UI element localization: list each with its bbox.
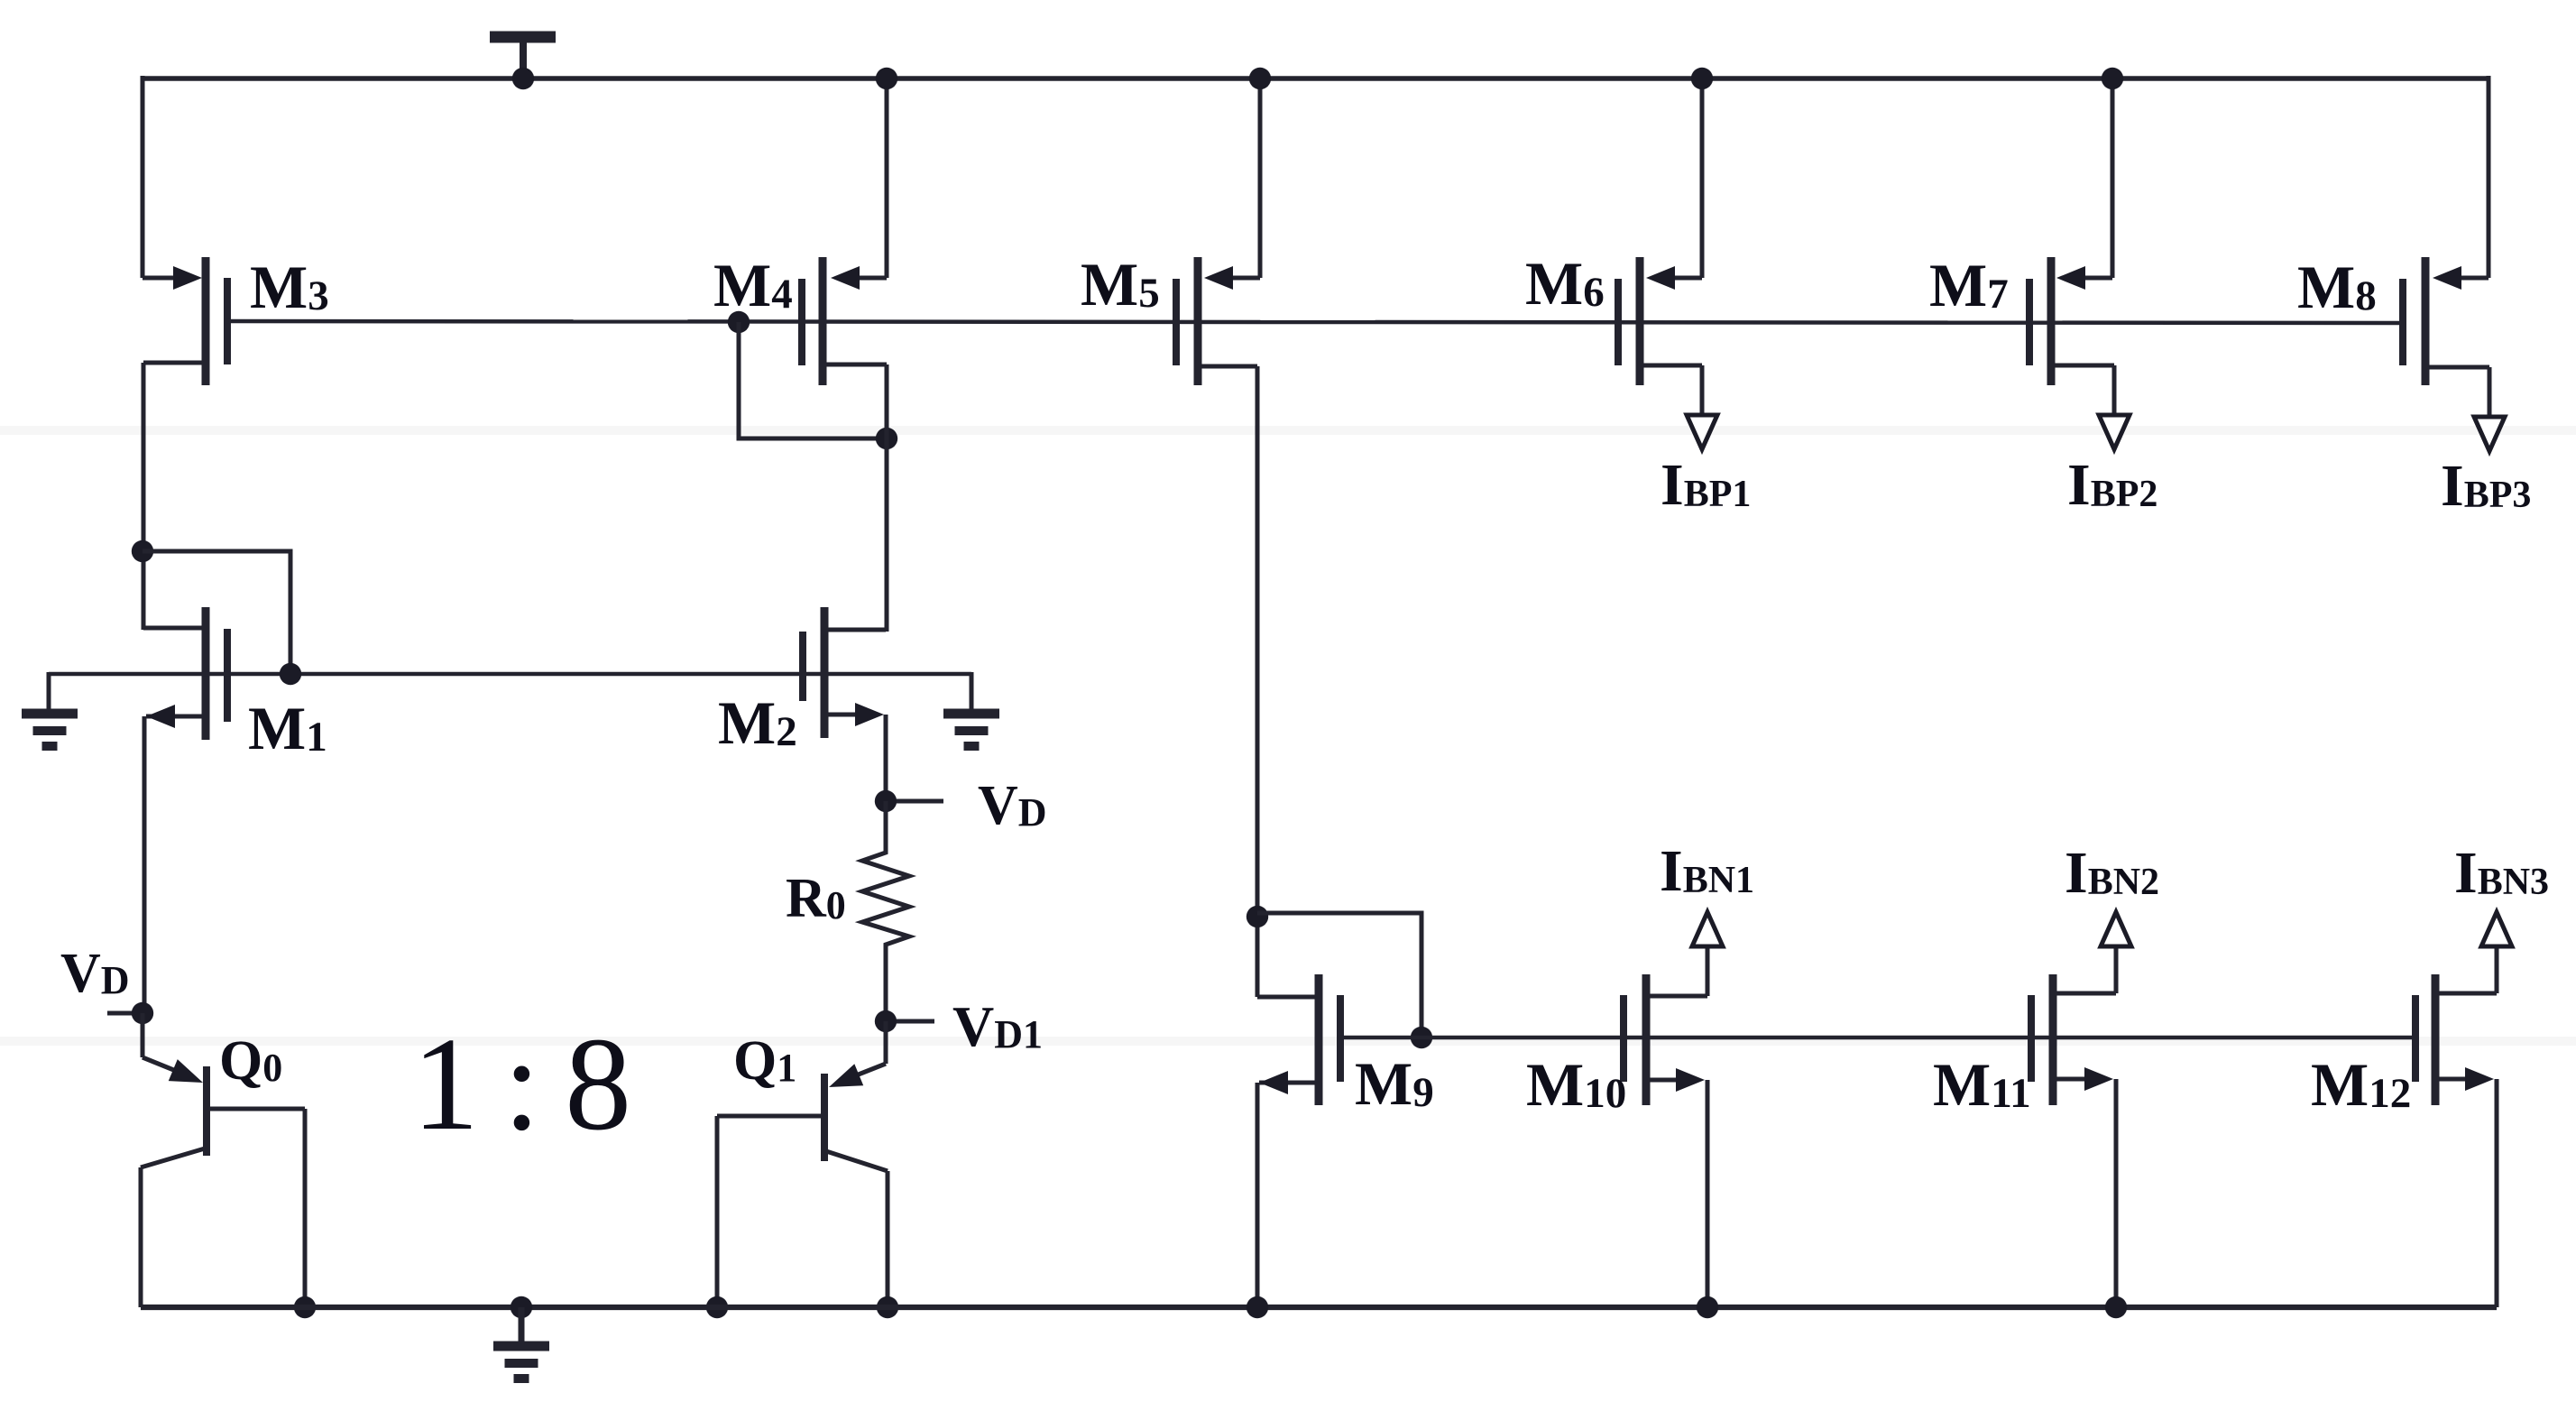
node dot M1 gate-drain bbox=[280, 663, 301, 685]
node dot M4 source on rail bbox=[876, 68, 897, 89]
label IBP2 bbox=[2067, 452, 2157, 518]
node dot M7 source on rail bbox=[2102, 68, 2123, 89]
label M10 bbox=[1526, 1050, 1626, 1119]
wire M1 drain stub bbox=[143, 626, 206, 631]
wire M11 source down bbox=[2114, 1079, 2119, 1307]
wire M12 source down bbox=[2495, 1079, 2499, 1307]
node dot M3 drain / M1 gate feedback bbox=[132, 540, 153, 562]
wire M5 source from rail bbox=[1258, 76, 1263, 278]
wire Q0 emitter bbox=[143, 1013, 180, 1073]
label M9 bbox=[1355, 1049, 1434, 1118]
label M5 bbox=[1081, 250, 1160, 318]
wire M4 drain stub bbox=[826, 364, 887, 632]
label M4 bbox=[713, 251, 793, 319]
label M12 bbox=[2311, 1050, 2411, 1119]
wire Q1 emitter bbox=[851, 1021, 886, 1077]
resistor R0 bbox=[862, 801, 909, 1021]
arrow IBP3 output bbox=[2474, 417, 2505, 451]
label M11 bbox=[1933, 1050, 2031, 1119]
node dot M4 gate tie bbox=[728, 311, 750, 333]
arrow IBP1 output bbox=[1687, 415, 1717, 449]
wire gate bus M3-M4-M5-M6-M7-M8 bbox=[227, 321, 2403, 323]
transistor M6 bbox=[1618, 257, 1702, 385]
label M3 bbox=[250, 253, 329, 321]
wire VD tick bbox=[897, 799, 943, 804]
transistor Q1 bbox=[717, 1074, 888, 1171]
transistor M9 bbox=[1259, 974, 1340, 1105]
node dot M9 drain from M5 bbox=[1247, 906, 1268, 927]
transistor M4 bbox=[802, 257, 887, 385]
node dot VD bbox=[875, 790, 897, 812]
wire M5 drain stub and drop to M9 bbox=[1201, 366, 1257, 997]
wire bottom ground stem bbox=[519, 1307, 525, 1344]
arrow Q0 emitter PNP bbox=[169, 1059, 203, 1083]
wire M9 drain stub bbox=[1257, 995, 1319, 1000]
transistor M3 bbox=[143, 257, 227, 385]
wire left ground stem bbox=[47, 672, 51, 714]
wire feedback M3 drain to M1 M2 gate line bbox=[143, 551, 290, 674]
arrow IBN2 output bbox=[2101, 912, 2131, 946]
label VD1 bbox=[952, 994, 1043, 1058]
node dot M4 drain tie bbox=[876, 428, 897, 449]
wire M7 source from rail bbox=[2111, 76, 2115, 278]
wire M12 drain to output bbox=[2495, 948, 2499, 993]
label R0 bbox=[786, 868, 846, 929]
node dot Q1 base on rail bbox=[706, 1296, 728, 1318]
wire M10 source down bbox=[1706, 1080, 1710, 1307]
wire M11 drain to output bbox=[2114, 948, 2119, 993]
transistor M8 bbox=[2403, 257, 2489, 385]
wire ground bottom rail bbox=[141, 1305, 2497, 1310]
label M2 bbox=[718, 688, 797, 757]
node dot M5 source on rail bbox=[1249, 68, 1271, 89]
wire M4 source from rail bbox=[885, 76, 889, 278]
ground symbol left bbox=[22, 714, 78, 746]
wire M8 source from rail corner bbox=[2487, 76, 2491, 278]
label IBP3 bbox=[2441, 453, 2531, 519]
node dot VD1 bbox=[875, 1010, 897, 1032]
label IBP1 bbox=[1661, 452, 1751, 518]
svg-text:1 : 8: 1 : 8 bbox=[412, 1010, 627, 1158]
wire Q0 base down bbox=[303, 1109, 308, 1307]
power supply symbol VDD bbox=[490, 37, 556, 81]
node dot VDD stem on rail bbox=[512, 68, 534, 89]
arrow IBN1 output bbox=[1692, 912, 1723, 946]
wire M9 source down bbox=[1256, 1083, 1260, 1307]
node dot Q0 base on rail bbox=[294, 1296, 316, 1318]
wire M2 source to VD node bbox=[884, 715, 888, 801]
label M1 bbox=[248, 694, 327, 762]
wire VD tick left bbox=[107, 1011, 143, 1016]
transistor M1 bbox=[146, 607, 227, 740]
label M6 bbox=[1525, 249, 1605, 318]
label Q0 bbox=[219, 1030, 282, 1092]
node dot M11 source on rail bbox=[2105, 1296, 2127, 1318]
transistor M12 bbox=[2415, 974, 2497, 1105]
node dot Q1 collector on rail bbox=[877, 1296, 898, 1318]
node dot bottom ground stem bbox=[511, 1296, 532, 1318]
label IBN2 bbox=[2065, 840, 2159, 906]
wire M4 gate-drain tie bbox=[739, 322, 887, 438]
node dot M9 gate tie bbox=[1411, 1027, 1432, 1048]
ground symbol bottom bbox=[493, 1346, 549, 1379]
wire M9 gate-drain tie bbox=[1257, 913, 1421, 1038]
label IBN1 bbox=[1660, 838, 1754, 904]
wire M6 drain to output bbox=[1643, 365, 1702, 414]
label M8 bbox=[2297, 253, 2377, 321]
label VD left bbox=[60, 943, 130, 1004]
wire Q1 collector down bbox=[886, 1171, 890, 1307]
transistor M2 bbox=[803, 607, 886, 738]
wire M3 source from rail bbox=[141, 76, 145, 278]
wire M7 drain to output bbox=[2055, 365, 2114, 414]
arrow Q1 emitter PNP bbox=[829, 1064, 863, 1087]
transistor Q0 bbox=[141, 1066, 305, 1167]
wire M1 source down to Q0 bbox=[143, 716, 147, 1013]
transistor M10 bbox=[1624, 974, 1707, 1105]
wire gate bus M9-M10-M11-M12 bbox=[1340, 1036, 2415, 1040]
wire Q1 base down bbox=[715, 1116, 720, 1307]
node dot M9 source on rail bbox=[1247, 1296, 1268, 1318]
wire M8 drain to output bbox=[2429, 367, 2489, 416]
wire M1 M2 gate line with grounds bbox=[49, 672, 971, 677]
wire VD1 tick bbox=[897, 1019, 934, 1024]
label emitter ratio 1:8 bbox=[412, 1010, 627, 1158]
wire M2 bulk ground stem bbox=[970, 672, 974, 714]
arrow IBN3 output bbox=[2481, 912, 2512, 946]
ground symbol right of M2 bbox=[943, 714, 999, 746]
wire M6 source from rail bbox=[1700, 76, 1705, 278]
node dot M6 source on rail bbox=[1691, 68, 1713, 89]
label IBN3 bbox=[2454, 840, 2549, 906]
wire M3 drain stub bbox=[143, 363, 206, 630]
transistor M7 bbox=[2029, 257, 2112, 385]
wire Q0 collector down bbox=[139, 1167, 143, 1307]
wire M10 drain to output bbox=[1706, 948, 1710, 996]
node dot M10 source on rail bbox=[1697, 1296, 1718, 1318]
wire VDD top rail bbox=[142, 76, 2489, 80]
transistor M11 bbox=[2031, 974, 2116, 1105]
arrow IBP2 output bbox=[2099, 415, 2130, 449]
transistor M5 bbox=[1176, 257, 1260, 385]
label Q1 bbox=[733, 1030, 796, 1092]
node dot VD at Q0 bbox=[132, 1002, 153, 1024]
label VD bbox=[978, 775, 1047, 836]
label M7 bbox=[1929, 251, 2009, 319]
